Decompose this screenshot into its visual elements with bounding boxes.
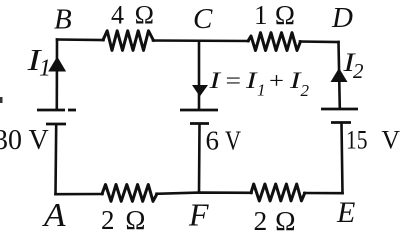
svg-text:2 Ω: 2 Ω [101, 205, 146, 232]
svg-text:2 Ω: 2 Ω [254, 205, 296, 232]
svg-text:2: 2 [353, 59, 364, 83]
resistor R4 2-ohm zigzag (right) [251, 184, 305, 201]
svg-text:C: C [193, 3, 213, 35]
scan speck on left edge [0, 97, 3, 103]
current arrow I1 (up) [48, 57, 66, 72]
svg-text:F: F [188, 196, 209, 232]
wire middle vertical C down to battery V2 [198, 41, 201, 109]
svg-text:B: B [54, 4, 72, 36]
svg-text:V: V [382, 125, 401, 154]
current arrow I total (down) [192, 85, 208, 97]
svg-text:30 V: 30 V [0, 125, 49, 156]
wire right vertical battery V3 down to E [342, 124, 343, 194]
battery V2 6V long plate [180, 109, 218, 112]
battery V1 30V long plate [37, 109, 76, 112]
svg-text:1: 1 [39, 56, 51, 82]
battery V2 6V short plate [190, 122, 209, 125]
wire middle vertical battery V2 down to F [198, 125, 201, 193]
battery V3 15V short plate [331, 121, 351, 124]
svg-text:4 Ω: 4 Ω [111, 1, 154, 30]
wire 2-ohm R4 to E corner [304, 192, 342, 195]
svg-text:+: + [269, 68, 284, 94]
resistor R3 2-ohm zigzag (left) [102, 185, 157, 202]
wire bottom rail A corner to 2-ohm R3 [56, 193, 103, 196]
svg-text:I: I [208, 68, 221, 94]
resistor R1 4-ohm zigzag [103, 31, 154, 51]
svg-text:D: D [331, 2, 353, 34]
wire top rail B corner to 4-ohm [57, 38, 104, 41]
current arrow I2 (up) [331, 68, 348, 82]
svg-text:2: 2 [301, 81, 310, 100]
svg-text:E: E [336, 196, 355, 229]
wire 2-ohm R3 via node F to 2-ohm R4 [157, 193, 252, 194]
wire 4-ohm to node C to 1-ohm [153, 39, 249, 42]
svg-text:V: V [225, 125, 241, 155]
svg-text:1 Ω: 1 Ω [254, 0, 295, 30]
wire left vertical B down to battery V1 [55, 40, 58, 110]
svg-text:=: = [226, 68, 242, 94]
wire right vertical D down to battery V3 [339, 42, 340, 109]
battery V3 15V long plate [321, 108, 358, 111]
wire left vertical battery V1 down to A corner [54, 125, 57, 194]
wire 1-ohm to node D corner [300, 40, 339, 43]
battery V1 30V short plate [46, 123, 66, 126]
svg-text:A: A [42, 197, 66, 232]
svg-text:6: 6 [206, 125, 220, 155]
svg-text:15: 15 [346, 125, 368, 154]
svg-text:1: 1 [257, 81, 266, 100]
resistor R2 1-ohm zigzag [248, 33, 301, 51]
